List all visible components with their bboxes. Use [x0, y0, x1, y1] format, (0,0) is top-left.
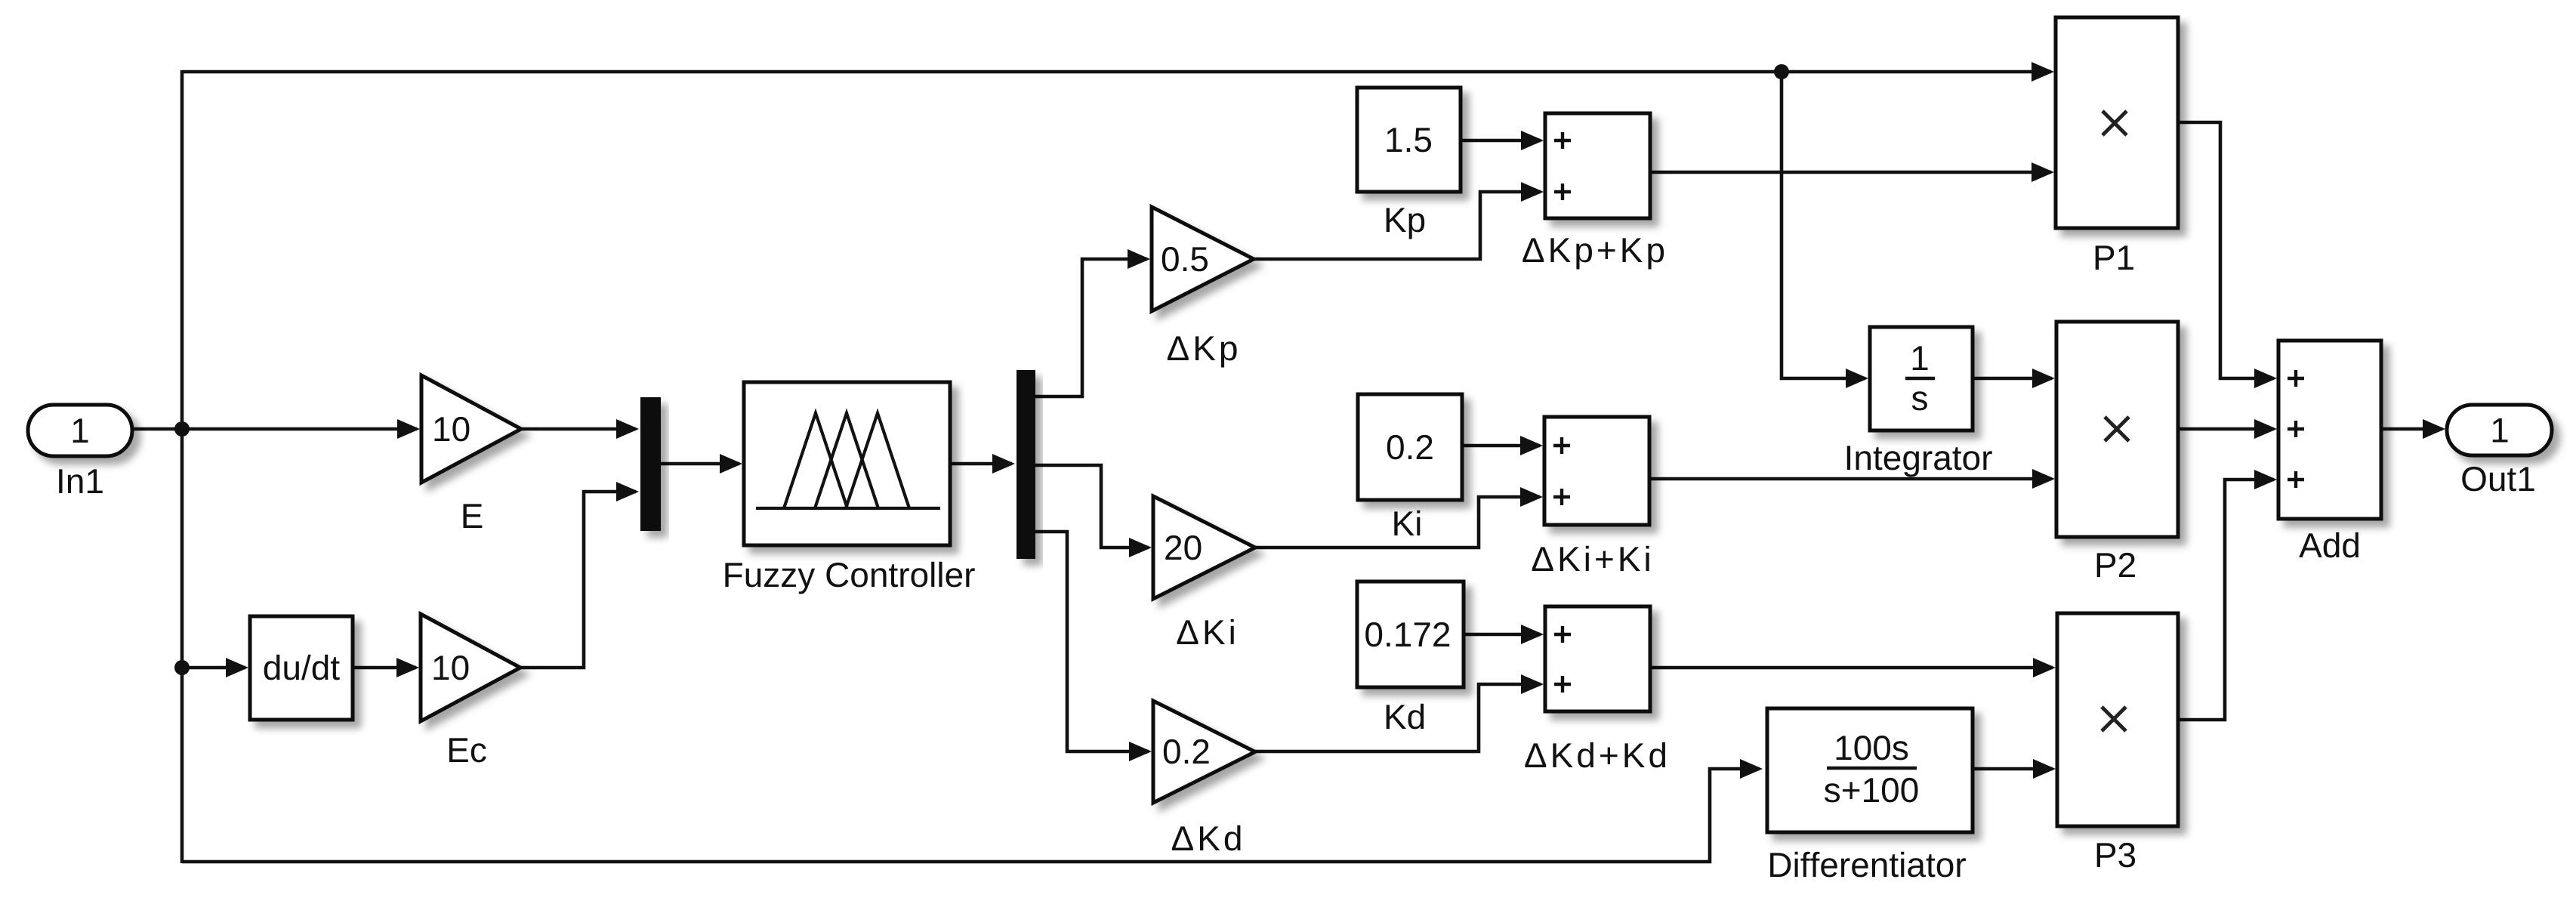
label sum dKp+Kp	[1522, 238, 1664, 269]
label dKp	[1168, 336, 1237, 367]
label E	[464, 504, 483, 528]
label Kd	[1387, 704, 1424, 730]
wire junction A to gain E	[182, 419, 420, 439]
fuzzy membership functions icon	[756, 413, 940, 508]
label In1	[59, 469, 103, 493]
wire junction B to Integrator	[1782, 72, 1868, 388]
wire sum dKi+Ki to product P2 input 2	[1649, 469, 2055, 489]
wire gain dKp to sum dKp+Kp input 2	[1254, 182, 1544, 259]
wire Integrator to product P2 input 1	[1973, 369, 2055, 388]
label P2	[2097, 553, 2135, 577]
inport In1	[28, 405, 132, 456]
gain Ec	[421, 614, 520, 721]
sum dKd+Kd	[1545, 606, 1650, 711]
integrator block 1/s	[1870, 327, 1973, 430]
gain dKd 0.2	[1153, 701, 1255, 803]
product P1	[2056, 17, 2178, 228]
wire In1 to junction A	[132, 427, 180, 431]
mux	[640, 397, 661, 531]
wire sum dKd+Kd to product P3 input 1	[1650, 658, 2056, 677]
label Integrator	[1847, 446, 1992, 477]
wire bottom bus to Differentiator	[182, 759, 1763, 862]
wire junction C to derivative du/dt	[182, 658, 248, 677]
wire product P1 to Add input 1	[2178, 122, 2277, 388]
gain dKi 20	[1153, 496, 1255, 599]
product P3	[2057, 613, 2178, 826]
constant Kd 0.172	[1357, 582, 1464, 687]
gain E	[421, 375, 521, 483]
derivative block du/dt	[250, 616, 353, 720]
label sum dKi+Ki	[1532, 546, 1649, 571]
differentiator block 100s/(s+100)	[1767, 708, 1973, 832]
outport Out1	[2447, 405, 2552, 455]
wire du/dt to gain Ec	[353, 658, 419, 677]
wire gain E to mux input 1	[521, 419, 639, 439]
sum dKi+Ki	[1544, 417, 1649, 525]
label Fuzzy Controller	[725, 562, 974, 594]
label Out1	[2462, 467, 2534, 492]
wire Differentiator to product P3 input 2	[1973, 759, 2056, 779]
wire gain Ec to mux input 2	[520, 482, 639, 668]
wire product P2 to Add input 2	[2178, 419, 2277, 439]
label Differentiator	[1770, 852, 1966, 878]
adder block Add	[2278, 341, 2381, 519]
label Kp	[1387, 208, 1425, 239]
wire demux output 3 to gain dKd	[1035, 532, 1152, 761]
wire gain dKd to sum dKd+Kd input 2	[1255, 674, 1544, 751]
label Ki	[1394, 511, 1420, 535]
label Add	[2299, 532, 2359, 558]
wire demux output 2 to gain dKi	[1035, 465, 1152, 557]
label P1	[2096, 245, 2133, 270]
wire demux output 1 to gain dKp	[1035, 249, 1150, 396]
junction C dot	[174, 660, 190, 675]
sum dKp+Kp	[1545, 113, 1650, 218]
wire Add to Out1	[2381, 419, 2445, 439]
wire sum dKp+Kp to product P1 input 2	[1650, 162, 2054, 182]
wire product P3 to Add input 3	[2178, 470, 2277, 720]
wire constant Ki to sum dKi+Ki input 1	[1462, 436, 1543, 455]
gain dKp 0.5	[1152, 207, 1254, 311]
label Ec	[449, 738, 486, 762]
wire constant Kp to sum dKp+Kp input 1	[1461, 131, 1544, 150]
label dKd	[1172, 825, 1241, 851]
wire main vertical feedback bus	[180, 70, 184, 863]
fuzzy controller block U1	[744, 382, 950, 545]
constant Ki 0.2	[1358, 394, 1462, 500]
label dKi	[1177, 619, 1234, 644]
label sum dKd+Kd	[1525, 742, 1665, 768]
label P3	[2097, 843, 2135, 868]
wire Fuzzy Controller to demux	[950, 454, 1015, 474]
wire top bus to product P1 input 1	[182, 62, 2054, 82]
junction A dot	[174, 421, 190, 437]
product P2	[2056, 322, 2178, 537]
constant Kp 1.5	[1357, 88, 1461, 192]
wire gain dKi to sum dKi+Ki input 2	[1255, 487, 1543, 548]
junction B dot on top bus	[1774, 64, 1789, 79]
wire mux to Fuzzy Controller	[661, 454, 742, 474]
demux	[1017, 370, 1035, 559]
wire constant Kd to sum dKd+Kd input 1	[1464, 625, 1544, 644]
